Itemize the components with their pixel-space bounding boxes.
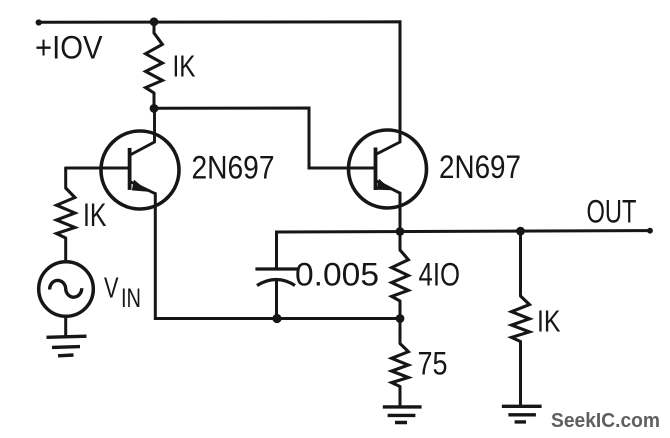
svg-text:IN: IN bbox=[121, 283, 141, 313]
svg-text:2N697: 2N697 bbox=[192, 150, 275, 186]
svg-text:+IOV: +IOV bbox=[35, 30, 103, 66]
svg-text:IK: IK bbox=[83, 197, 107, 233]
svg-text:2N697: 2N697 bbox=[439, 149, 521, 185]
svg-text:OUT: OUT bbox=[587, 194, 637, 230]
svg-text:IK: IK bbox=[173, 49, 196, 84]
svg-text:IK: IK bbox=[537, 304, 561, 339]
svg-text:V: V bbox=[104, 273, 119, 305]
svg-text:0.005: 0.005 bbox=[295, 257, 379, 293]
svg-text:SeekIC.com: SeekIC.com bbox=[551, 410, 660, 432]
svg-text:4IO: 4IO bbox=[419, 257, 461, 293]
svg-text:75: 75 bbox=[418, 346, 448, 382]
